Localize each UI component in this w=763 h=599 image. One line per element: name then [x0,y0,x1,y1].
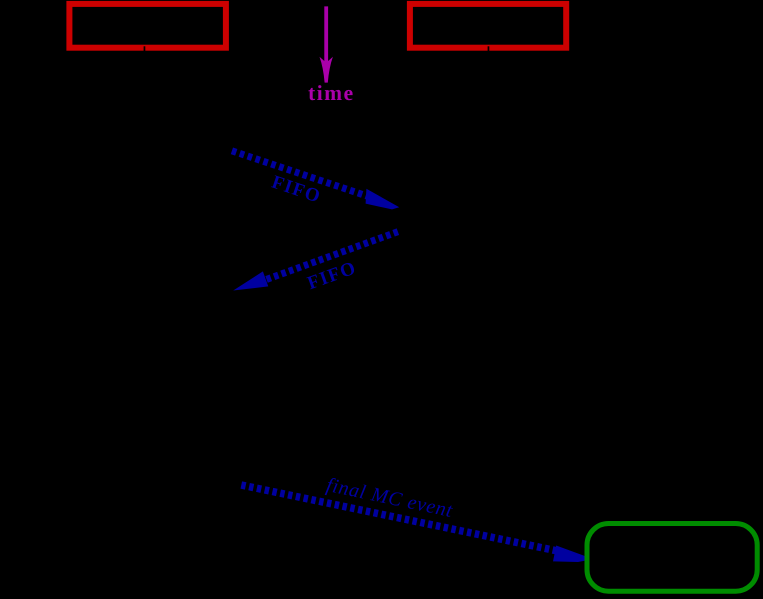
FIFO message arrow 1 head [366,189,400,210]
label: final MC event [325,477,454,521]
label: FIFO (arrow 1) [271,175,321,202]
actor box 1 (top-left red rectangle) [69,4,226,48]
label: time [308,85,352,100]
time arrow shaft (magenta) [324,6,328,66]
final MC event arrow head [553,546,587,563]
FIFO message arrow 2 dashed shaft [266,232,398,280]
FIFO message arrow 2 head [233,271,268,290]
lifeline tick on box 1 [144,46,146,52]
time arrow head [320,57,333,83]
FIFO message arrow 1 dashed shaft [232,151,373,198]
label: FIFO (arrow 2) [306,261,356,289]
final MC event arrow dashed shaft [241,485,558,551]
actor box 2 (top-right red rectangle) [410,4,566,48]
result box (green rounded rectangle) [587,524,757,592]
lifeline tick on box 2 [488,46,490,52]
